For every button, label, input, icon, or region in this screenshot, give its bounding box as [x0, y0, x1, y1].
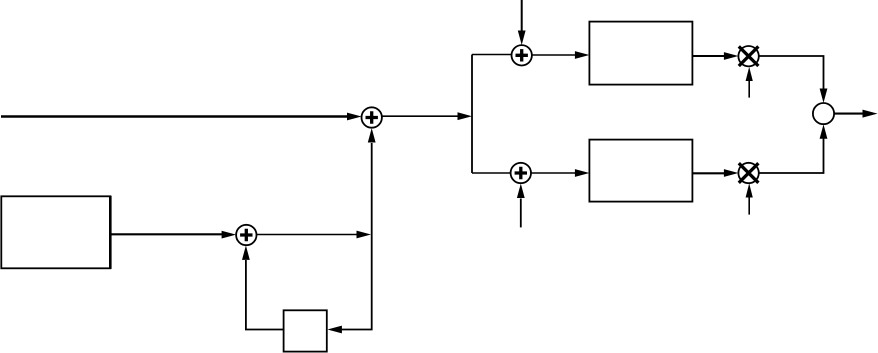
block B1 (upper): [589, 22, 692, 85]
wire: S3 to block B2: [531, 169, 589, 177]
wire: S1 output to branch split node: [382, 112, 472, 120]
summing junction S4: [236, 225, 256, 245]
wire: bottom input arrow into S3: [517, 184, 525, 228]
wire: S4 to vertical feedback line: [257, 231, 372, 239]
wire: up arrow into M1: [746, 67, 753, 98]
block B4 (feedback, small): [284, 310, 327, 351]
wire: output arrow: [834, 110, 877, 118]
multiplier M2: [738, 163, 758, 183]
summing junction S2: [512, 45, 532, 65]
wire: B2 to multiplier M2: [692, 169, 738, 177]
wire: top input arrow into S2: [518, 0, 526, 45]
wire: main input line into summing junction S1: [1, 113, 362, 121]
wire: lower branch into summing junction S3: [472, 172, 511, 174]
wire: S2 to block B1: [532, 51, 590, 59]
wire: M2 to output node, corner up: [759, 124, 828, 173]
output node O: [813, 103, 834, 124]
wire: upper branch into summing junction S2: [472, 54, 512, 56]
wire: B1 to multiplier M1: [692, 52, 738, 60]
wire: up arrow into M2: [746, 183, 753, 214]
wire: B3 to summing junction S4: [110, 231, 236, 239]
wire: vertical line up into S1: [368, 128, 376, 234]
block B3 (bottom left): [1, 196, 110, 269]
wire: M1 to output node, corner down: [759, 56, 828, 103]
wire: B4 output left and up into S4: [242, 246, 284, 330]
wire: feedback down and left into block B4: [327, 235, 371, 334]
summing junction S1: [362, 107, 382, 127]
block B2 (lower): [589, 140, 692, 202]
summing junction S3: [511, 163, 531, 183]
wire: vertical branch split line: [471, 55, 473, 174]
multiplier M1: [738, 46, 758, 66]
